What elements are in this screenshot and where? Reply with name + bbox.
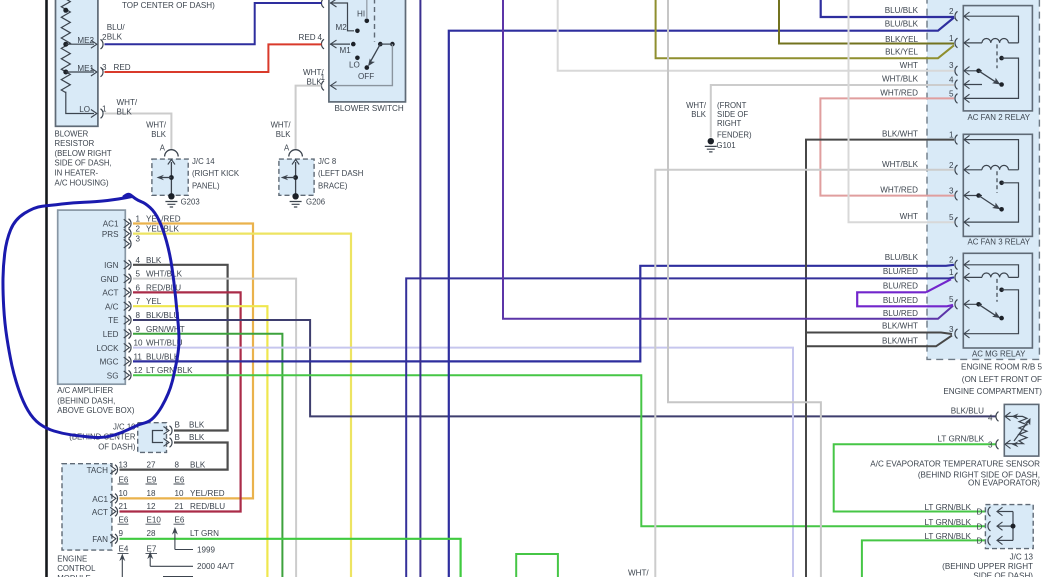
wire BLU/BLK amplifier pin 11 MGC to AC MG relay pin 2 [133, 265, 954, 362]
svg-text:ENGINE ROOM R/B 5: ENGINE ROOM R/B 5 [961, 363, 1042, 372]
svg-text:BLK: BLK [190, 461, 206, 470]
labels top left [77, 1, 215, 116]
svg-text:LO: LO [349, 61, 360, 70]
svg-text:BLU/BLK: BLU/BLK [885, 253, 919, 262]
svg-text:BLU/BLK: BLU/BLK [885, 20, 919, 29]
svg-text:BLU/RED: BLU/RED [883, 267, 918, 276]
svg-text:1: 1 [949, 268, 954, 277]
blower switch rotor [378, 42, 383, 47]
svg-text:J/C 13: J/C 13 [1010, 553, 1034, 562]
svg-text:WHT/RED: WHT/RED [880, 185, 918, 194]
wire BLK/YEL top to AC fan 2 relay pin 1 upper [779, 0, 954, 44]
svg-text:WHT/BLK: WHT/BLK [146, 270, 183, 279]
blower switch contact M2 [355, 29, 360, 34]
svg-text:TOP CENTER OF DASH): TOP CENTER OF DASH) [122, 1, 215, 10]
svg-text:BLK: BLK [276, 130, 292, 139]
J/C 14 junction connector [152, 159, 188, 195]
svg-text:3: 3 [949, 187, 954, 196]
wire WHT/BLK AC fan 2 relay pin 4 to ground G101 [711, 85, 954, 138]
svg-text:SIDE OF DASH): SIDE OF DASH) [973, 572, 1033, 577]
wire WHT top to AC fan 3 relay pin 5 [849, 0, 955, 222]
svg-text:LT GRN/BLK: LT GRN/BLK [938, 435, 985, 444]
svg-text:D: D [977, 522, 983, 531]
svg-text:4: 4 [136, 256, 141, 265]
G101 labels [686, 101, 752, 139]
svg-text:4: 4 [949, 76, 954, 85]
svg-text:ENGINE: ENGINE [57, 554, 87, 563]
amplifier caption [57, 386, 135, 415]
svg-text:3: 3 [988, 440, 993, 449]
wire LT GRN/BLK amplifier pin 12 SG to J/C 13 pin D [133, 375, 988, 526]
svg-text:10: 10 [134, 339, 144, 348]
svg-text:BRACE): BRACE) [318, 182, 348, 191]
blower switch entry wire to M2 [330, 3, 354, 31]
svg-text:TE: TE [108, 316, 119, 325]
svg-text:2: 2 [102, 33, 107, 42]
J/C 10 internal jumper [153, 431, 164, 443]
svg-text:RED/BLU: RED/BLU [190, 502, 225, 511]
tap wire ME2 [66, 43, 94, 45]
svg-text:A: A [160, 144, 166, 153]
svg-text:YEL: YEL [146, 297, 162, 306]
ECM 1999 legend arrow [175, 530, 193, 550]
svg-text:3: 3 [102, 63, 107, 72]
svg-text:D: D [977, 508, 983, 517]
svg-text:IGN: IGN [104, 261, 119, 270]
wire YEL/RED amplifier pin 1 to ECM AC1 [120, 224, 254, 499]
AC MG relay [963, 253, 1032, 348]
svg-text:WHT/: WHT/ [117, 98, 138, 107]
svg-text:2: 2 [136, 225, 141, 234]
svg-text:AC1: AC1 [103, 220, 119, 229]
svg-text:E4: E4 [119, 545, 129, 554]
svg-text:BLK: BLK [146, 256, 162, 265]
wire WHT/BLU amplifier pin 10 down [133, 348, 793, 577]
svg-text:WHT/BLU: WHT/BLU [146, 339, 183, 348]
svg-text:A/C AMPLIFIER: A/C AMPLIFIER [57, 386, 113, 395]
svg-text:G206: G206 [306, 197, 325, 206]
J/C 14 labels [146, 121, 240, 191]
wire BLK amplifier pin 4 to J/C 10 [133, 265, 228, 431]
svg-text:2: 2 [949, 256, 954, 265]
svg-text:OFF: OFF [358, 72, 374, 81]
svg-text:OF DASH): OF DASH) [98, 442, 136, 451]
wire full-height vertical [419, 0, 421, 577]
wire BLK/YEL top to AC fan 2 relay pin 1 lower [656, 0, 954, 58]
blower switch contact HI [366, 0, 368, 18]
svg-text:HI: HI [357, 9, 365, 18]
wire WHT/BLK amplifier pin 5 down [133, 279, 296, 577]
wire WHT top to AC fan 2 relay pin 3 [558, 0, 954, 71]
svg-text:YEL/RED: YEL/RED [190, 489, 225, 498]
resistor element zigzag [57, 0, 70, 93]
svg-text:LT GRN/BLK: LT GRN/BLK [925, 532, 972, 541]
blower switch wire rotor to pin 1 [331, 44, 392, 86]
svg-text:ON EVAPORATOR): ON EVAPORATOR) [968, 479, 1040, 488]
svg-text:12: 12 [147, 502, 157, 511]
blower resistor caption [55, 129, 112, 187]
svg-text:12: 12 [134, 366, 144, 375]
svg-text:5: 5 [136, 270, 141, 279]
svg-text:(RIGHT KICK: (RIGHT KICK [192, 169, 240, 178]
svg-text:LOCK: LOCK [96, 344, 119, 353]
svg-text:LT GRN/BLK: LT GRN/BLK [925, 503, 972, 512]
svg-text:E6: E6 [175, 516, 185, 525]
svg-text:GND: GND [101, 275, 119, 284]
pin 1 LO arc [101, 109, 104, 119]
J/C 8 junction connector [279, 159, 314, 195]
svg-text:10: 10 [119, 489, 129, 498]
svg-text:1: 1 [321, 73, 326, 82]
svg-text:21: 21 [175, 502, 185, 511]
evaporator sensor pin 4 [996, 412, 999, 422]
wire BLU/RED jumper MG relay pin 1 to pin 5 [857, 279, 953, 306]
svg-text:11: 11 [134, 352, 143, 361]
svg-text:E6: E6 [119, 475, 129, 484]
svg-text:RESISTOR: RESISTOR [55, 139, 95, 148]
svg-text:5: 5 [949, 213, 954, 222]
svg-text:6: 6 [136, 283, 141, 292]
ground G101 [708, 138, 714, 144]
wire RED resistor ME1 to blower switch pin 4 [105, 44, 322, 72]
svg-text:8: 8 [136, 311, 141, 320]
engine room R/B 5 junction block region [927, 0, 1039, 359]
blower switch detent dashed line [374, 0, 376, 42]
blower switch contact M1 wire [330, 43, 350, 45]
svg-text:M2: M2 [336, 23, 348, 32]
pin 3 ME1 arc [101, 67, 104, 77]
J/C 10 pin B lower [170, 438, 173, 448]
svg-text:BLU/BLK: BLU/BLK [146, 352, 180, 361]
svg-text:8: 8 [175, 461, 180, 470]
svg-text:J/C 8: J/C 8 [318, 157, 336, 166]
wire WHT/BLK blower switch pin 1 to J/C 8 [296, 86, 322, 150]
engine control module box [62, 464, 112, 550]
svg-text:WHT/: WHT/ [628, 569, 649, 577]
svg-text:BLU/RED: BLU/RED [883, 296, 918, 305]
svg-text:ME1: ME1 [77, 64, 94, 73]
svg-text:WHT: WHT [900, 212, 918, 221]
ECM pin arcs [110, 465, 116, 473]
svg-text:AC FAN 3 RELAY: AC FAN 3 RELAY [968, 238, 1031, 247]
blower resistor box [56, 0, 98, 126]
evaporator sensor thermistor [1006, 416, 1027, 443]
svg-text:BLU/BLK: BLU/BLK [885, 6, 919, 15]
wire BLU/RED top to AC MG relay pin 5 [503, 0, 953, 319]
svg-text:YEL/RED: YEL/RED [146, 215, 181, 224]
wire WHT/BLK resistor LO to J/C 14 [105, 114, 172, 150]
svg-text:28: 28 [147, 529, 157, 538]
svg-text:10: 10 [175, 489, 185, 498]
svg-text:ENGINE COMPARTMENT): ENGINE COMPARTMENT) [943, 387, 1042, 396]
svg-text:13: 13 [119, 461, 129, 470]
hand-drawn annotation circle around A/C amplifier [3, 194, 179, 437]
A/C evaporator temperature sensor box [1004, 404, 1039, 456]
svg-text:IN HEATER-: IN HEATER- [55, 169, 99, 178]
svg-text:BLK: BLK [107, 32, 123, 41]
svg-text:1: 1 [949, 34, 954, 43]
MG relay wire labels [882, 253, 919, 345]
fan 3 relay pin numbers and caption [949, 131, 954, 223]
svg-text:WHT/: WHT/ [686, 101, 707, 110]
svg-text:E6: E6 [119, 516, 129, 525]
engine room R/B caption [943, 363, 1042, 397]
svg-text:(FRONT: (FRONT [717, 101, 747, 110]
svg-text:2: 2 [949, 7, 954, 16]
svg-text:(BEHIND UPPER RIGHT: (BEHIND UPPER RIGHT [942, 562, 1033, 571]
svg-text:WHT/: WHT/ [146, 121, 167, 130]
wire BLU/BLK top to AC fan 2 relay pin 2 upper [821, 0, 954, 17]
svg-text:FAN: FAN [92, 535, 108, 544]
svg-text:BLK/YEL: BLK/YEL [885, 47, 918, 56]
wire BLK J/C 10 to ECM TACH [120, 443, 228, 470]
svg-text:18: 18 [147, 489, 157, 498]
wire WHT/BLK AC fan 3 relay pin 2 down [655, 170, 954, 577]
blower switch contact LO [355, 56, 360, 61]
MG relay pin numbers and caption [949, 256, 954, 334]
J/C 13 pin D [988, 536, 991, 546]
svg-text:D: D [977, 537, 983, 546]
ground G203 [168, 193, 174, 199]
svg-text:(ON LEFT FRONT OF: (ON LEFT FRONT OF [962, 375, 1042, 384]
svg-text:WHT/BLK: WHT/BLK [882, 75, 919, 84]
J/C 13 pin D [988, 507, 991, 517]
svg-text:3: 3 [949, 325, 954, 334]
svg-text:MGC: MGC [100, 358, 119, 367]
svg-text:ME2: ME2 [77, 36, 94, 45]
svg-text:CONTROL: CONTROL [57, 564, 96, 573]
J/C 10 junction connector [138, 423, 167, 453]
svg-text:WHT/: WHT/ [271, 121, 292, 130]
svg-text:7: 7 [136, 297, 141, 306]
A/C amplifier box [58, 210, 126, 384]
svg-text:E10: E10 [147, 516, 162, 525]
wire LT GRN/BLK loop at bottom center [516, 554, 558, 577]
svg-text:G101: G101 [717, 141, 736, 150]
svg-text:BLK: BLK [117, 107, 133, 116]
wire WHT top, jog right, down to bottom [668, 0, 821, 577]
fan 2 relay wire labels [880, 6, 918, 97]
svg-text:RIGHT: RIGHT [717, 119, 741, 128]
evaporator sensor labels [938, 407, 993, 450]
svg-text:BLU/: BLU/ [107, 23, 126, 32]
svg-text:A/C HOUSING): A/C HOUSING) [55, 178, 110, 187]
svg-text:WHT/BLK: WHT/BLK [882, 160, 919, 169]
svg-text:2000 4A/T: 2000 4A/T [197, 562, 234, 571]
svg-text:BLK/BLU: BLK/BLU [951, 407, 984, 416]
svg-text:2: 2 [949, 161, 954, 170]
svg-text:BLU/RED: BLU/RED [883, 309, 918, 318]
J/C 13 pin D [988, 521, 991, 531]
J/C 8 labels [271, 121, 364, 191]
svg-text:BLK: BLK [691, 110, 707, 119]
svg-text:SG: SG [107, 371, 119, 380]
svg-text:1: 1 [102, 105, 107, 114]
wire BLU/BLK to AC fan 2 relay pin 2 lower [449, 18, 954, 577]
wire LT GRN/BLK evaporator pin 3 to J/C 13 pin D [834, 444, 997, 511]
A/C amplifier pin arcs 1-12 [124, 219, 130, 227]
ECM 2000 M/T legend partial [163, 576, 193, 577]
blower switch contact OFF [365, 65, 370, 70]
blower switch pin arcs [321, 0, 324, 8]
pin 2 ME2 arc [101, 39, 104, 49]
svg-text:WHT: WHT [900, 61, 918, 70]
blower switch box [329, 0, 406, 102]
svg-text:RED: RED [114, 63, 131, 72]
fan 2 relay pin numbers and caption [949, 7, 954, 98]
svg-text:PANEL): PANEL) [192, 182, 220, 191]
svg-text:3: 3 [136, 235, 141, 244]
svg-text:BLK/WHT: BLK/WHT [882, 322, 918, 331]
svg-text:LED: LED [103, 330, 119, 339]
ECM pin table [87, 461, 235, 571]
svg-text:BLK/WHT: BLK/WHT [882, 130, 918, 139]
wire YEL amplifier pin 7 down [133, 306, 267, 577]
svg-text:BLK: BLK [189, 421, 205, 430]
svg-text:PRS: PRS [102, 230, 119, 239]
svg-text:A/C EVAPORATOR TEMPERATURE SEN: A/C EVAPORATOR TEMPERATURE SENSOR [870, 460, 1040, 469]
svg-text:(BELOW RIGHT: (BELOW RIGHT [55, 149, 112, 158]
wire BLU/BLK resistor ME2 to blower switch [105, 3, 322, 44]
wire BLU/RED bottom to AC MG relay pin 1 [406, 277, 954, 577]
svg-text:ACT: ACT [92, 508, 108, 517]
svg-text:BLK: BLK [189, 433, 205, 442]
ground G206 [292, 193, 298, 199]
svg-text:BLK/BLU: BLK/BLU [146, 311, 179, 320]
wire WHT/RED AC fan 2 relay pin 5 to AC fan 3 relay pin 3 [820, 98, 954, 195]
svg-text:BLU/RED: BLU/RED [883, 281, 918, 290]
svg-text:4: 4 [988, 413, 993, 422]
svg-text:BLK: BLK [151, 130, 167, 139]
svg-text:LT GRN/BLK: LT GRN/BLK [925, 518, 972, 527]
svg-text:1999: 1999 [197, 546, 216, 555]
svg-text:9: 9 [136, 325, 141, 334]
svg-text:(BEHIND DASH,: (BEHIND DASH, [57, 397, 115, 406]
svg-text:LT GRN: LT GRN [190, 529, 219, 538]
svg-text:M1: M1 [340, 46, 352, 55]
svg-text:BLK/WHT: BLK/WHT [882, 336, 918, 345]
wire LT GRN/BLK J/C 13 pin D to bottom [862, 540, 988, 577]
blower switch labels [299, 9, 404, 113]
svg-text:FENDER): FENDER) [717, 130, 752, 139]
svg-text:J/C 14: J/C 14 [192, 157, 215, 166]
svg-text:E9: E9 [147, 475, 157, 484]
svg-text:4: 4 [318, 33, 323, 42]
svg-text:1: 1 [136, 215, 141, 224]
resistor tap nodes [63, 8, 68, 13]
wire GRN/WHT amplifier pin 9 down [133, 334, 282, 577]
svg-text:A/C: A/C [105, 302, 119, 311]
wire BLK/WHT AC fan 3 relay pin 1 down, branches to AC MG relay pin 3 [806, 140, 954, 577]
wire LT GRN ECM FAN to bottom [120, 539, 461, 577]
fan 3 relay wire labels [880, 130, 918, 222]
svg-text:G203: G203 [181, 197, 200, 206]
amplifier pin names [96, 220, 119, 381]
svg-text:LT GRN/BLK: LT GRN/BLK [146, 366, 193, 375]
svg-text:TACH: TACH [87, 466, 109, 475]
wire RED/BLU amplifier pin 6 to ECM ACT [120, 292, 241, 511]
svg-text:ABOVE GLOVE BOX): ABOVE GLOVE BOX) [57, 406, 135, 415]
J/C 13 junction dot [1011, 524, 1016, 529]
tap wire ME1 [66, 71, 94, 73]
ECM 2000 4A/T legend arrows [122, 555, 193, 577]
wire YEL/BLK amplifier pin 2 down [133, 234, 351, 577]
svg-text:A: A [284, 144, 290, 153]
svg-text:RED: RED [299, 33, 316, 42]
svg-text:SIDE OF DASH,: SIDE OF DASH, [55, 159, 112, 168]
J/C 13 junction connector [985, 505, 1033, 549]
svg-text:1: 1 [949, 131, 954, 140]
svg-text:LO: LO [79, 105, 90, 114]
svg-text:3: 3 [949, 61, 954, 70]
svg-text:BLOWER SWITCH: BLOWER SWITCH [335, 104, 404, 113]
svg-text:9: 9 [119, 529, 124, 538]
svg-text:AC MG RELAY: AC MG RELAY [972, 349, 1026, 358]
svg-text:E6: E6 [175, 475, 185, 484]
svg-text:B: B [175, 421, 180, 430]
svg-text:AC FAN 2 RELAY: AC FAN 2 RELAY [968, 113, 1031, 122]
svg-text:5: 5 [949, 89, 954, 98]
svg-text:E7: E7 [147, 545, 157, 554]
svg-text:5: 5 [949, 295, 954, 304]
evaporator sensor pin 3 [996, 440, 999, 450]
svg-text:21: 21 [119, 502, 129, 511]
svg-text:(LEFT DASH: (LEFT DASH [318, 169, 363, 178]
svg-text:27: 27 [147, 461, 157, 470]
J/C 10 labels [69, 423, 136, 452]
AC fan 3 relay [963, 134, 1032, 236]
AC fan 2 relay [963, 6, 1032, 111]
wire BLK/BLU amplifier pin 8 to evaporator sensor pin 4 [133, 320, 997, 416]
J/C 13 labels [925, 503, 983, 545]
J/C 10 pin B upper [170, 426, 173, 436]
ECM caption [57, 554, 96, 577]
svg-text:AC1: AC1 [92, 495, 108, 504]
amplifier pin numbers and wire colors [134, 215, 194, 376]
svg-text:ACT: ACT [102, 289, 118, 298]
svg-text:WHT/RED: WHT/RED [880, 88, 918, 97]
svg-text:BLOWER: BLOWER [55, 129, 89, 138]
svg-text:BLK/YEL: BLK/YEL [885, 35, 918, 44]
svg-text:SIDE OF: SIDE OF [717, 110, 748, 119]
svg-text:B: B [175, 433, 180, 442]
